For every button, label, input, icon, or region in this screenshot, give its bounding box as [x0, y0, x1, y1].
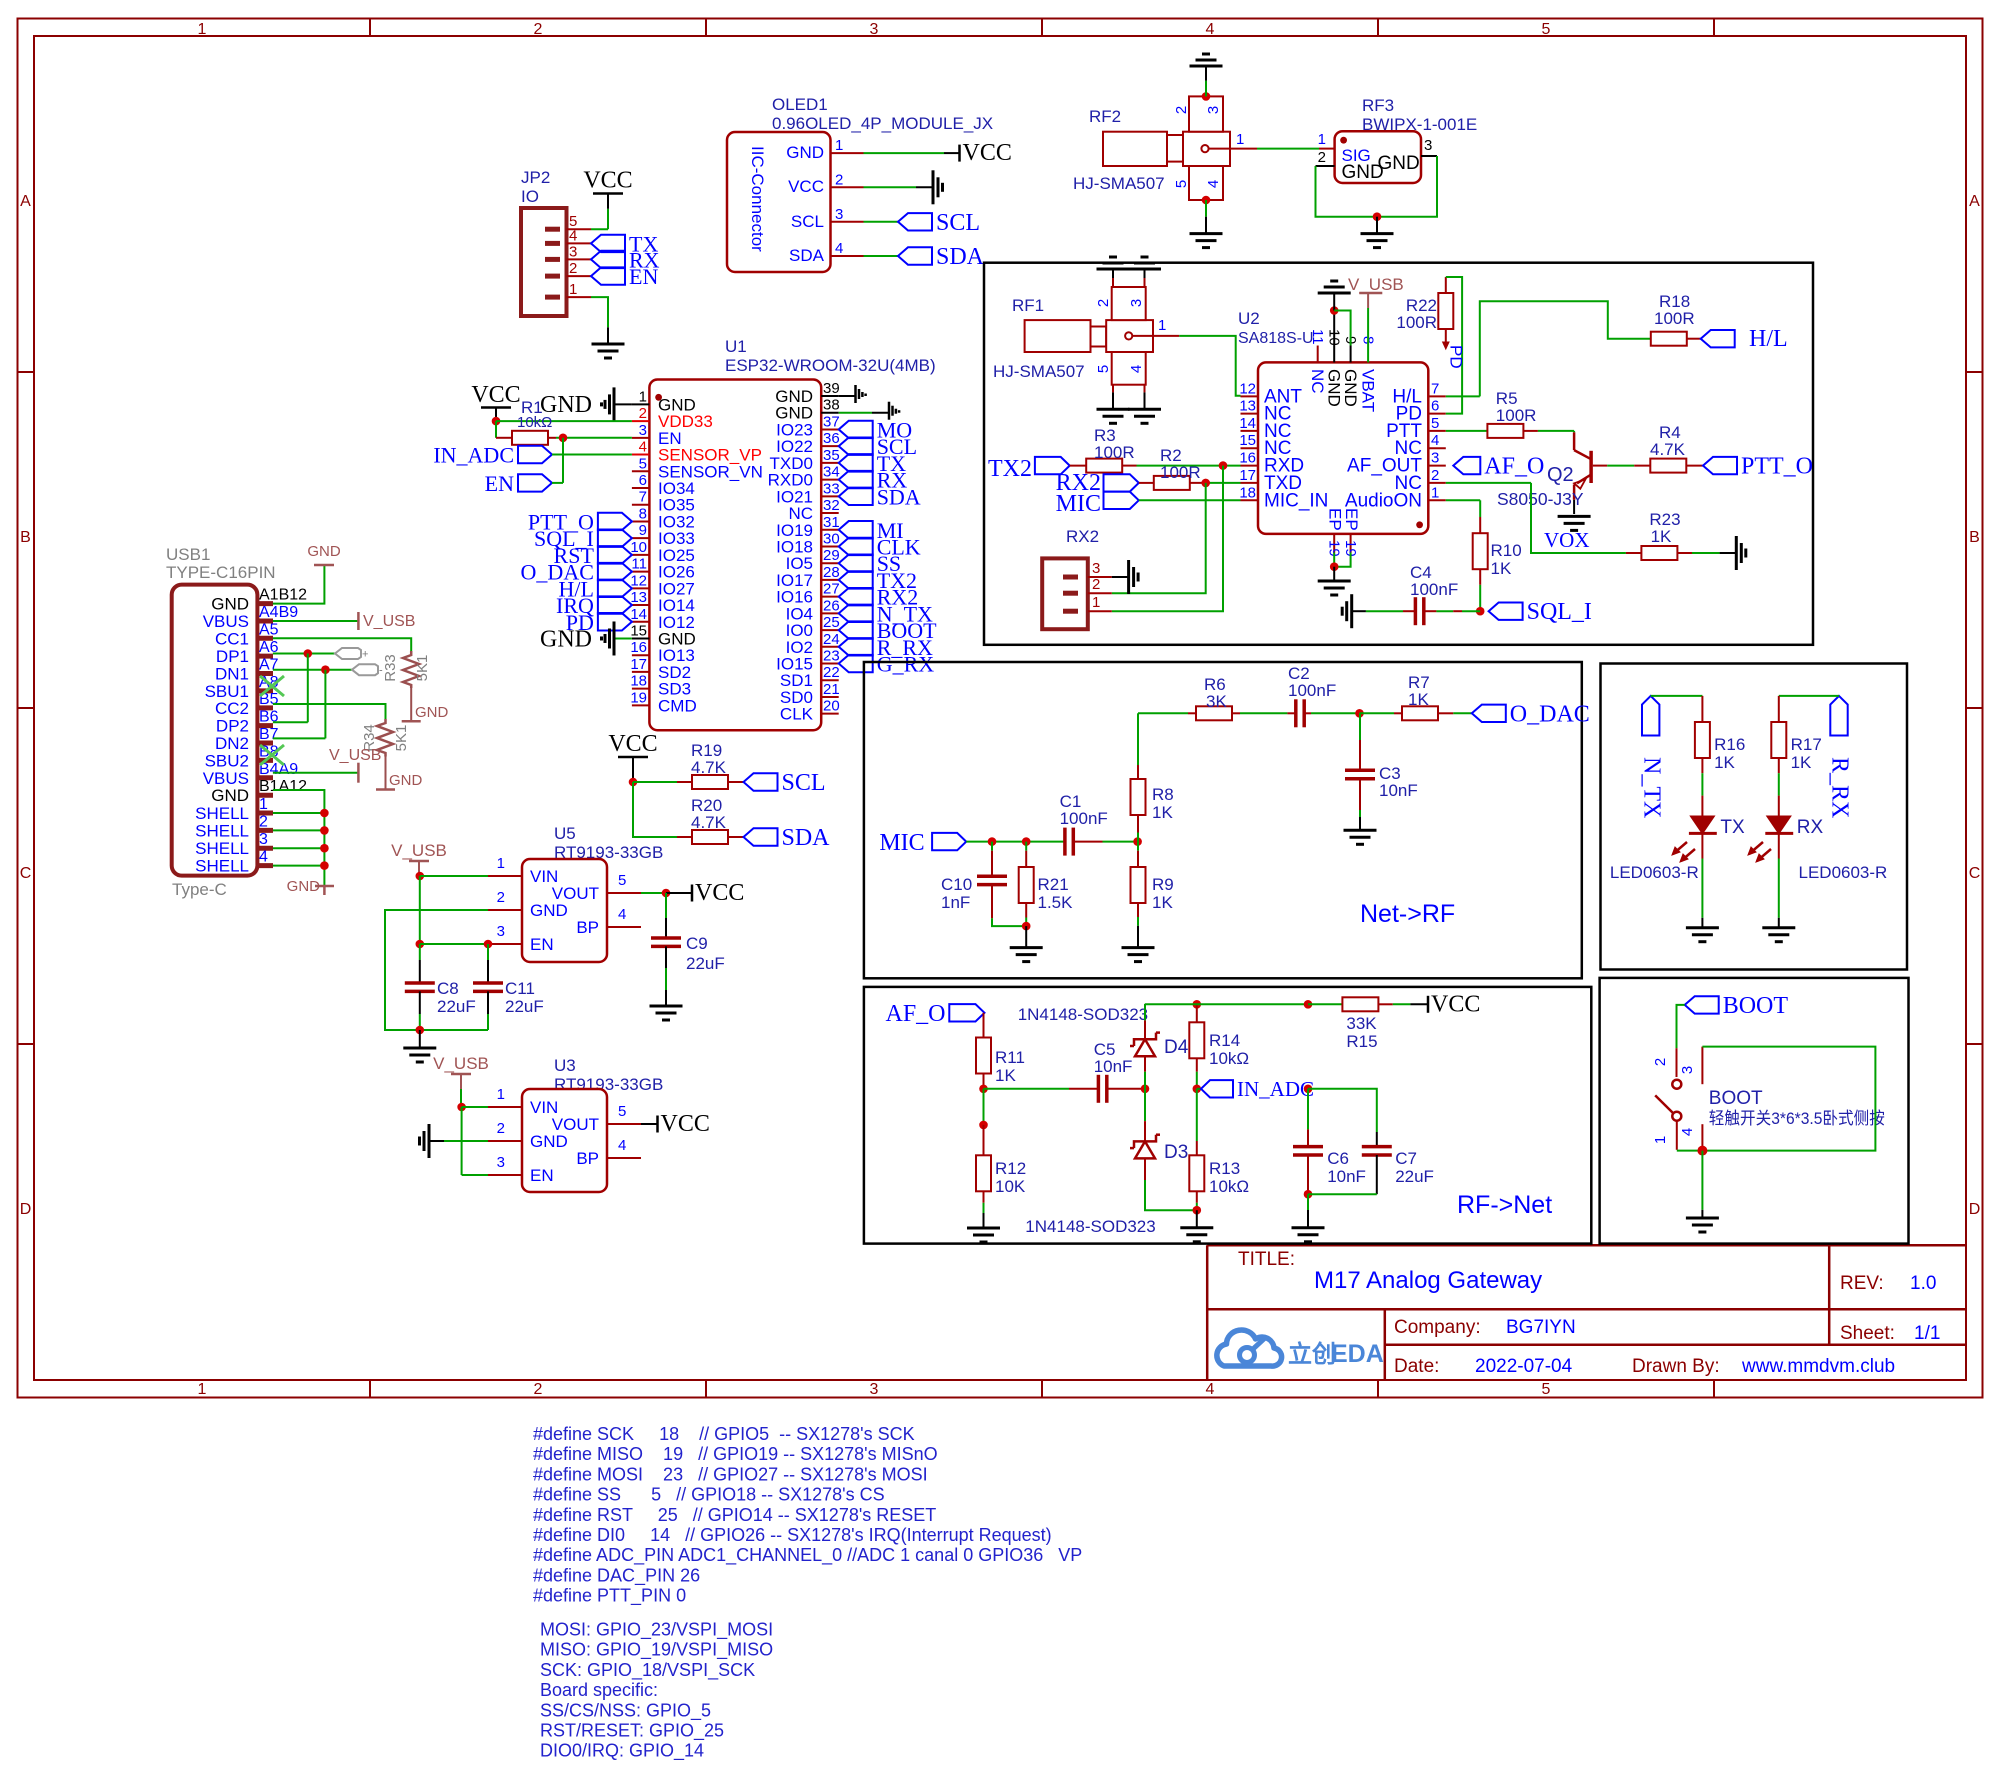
wire RF2-RF3 — [1230, 148, 1257, 150]
JP2 pin numbers — [569, 213, 577, 298]
net flag R_RX (box L) — [1830, 696, 1847, 736]
svg-text:1: 1 — [198, 21, 207, 38]
probe D+ — [335, 648, 361, 659]
net flag O_DAC (R7) — [1472, 705, 1506, 722]
svg-text:1: 1 — [1158, 317, 1166, 334]
svg-text:OLED1: OLED1 — [772, 95, 828, 114]
svg-text:3: 3 — [497, 923, 505, 940]
OLED1 pin numbers — [835, 137, 843, 257]
wire LED RX gnd — [1778, 833, 1780, 858]
wire NC pin2 to R23 — [1446, 482, 1531, 484]
svg-text:SHELL: SHELL — [195, 839, 249, 858]
svg-text:H/L: H/L — [1749, 326, 1788, 352]
power flag VCC (U3) — [656, 1116, 659, 1133]
svg-text:BG7IYN: BG7IYN — [1506, 1317, 1576, 1338]
defines text block — [533, 1424, 1082, 1607]
JP2 pin 2 wire — [567, 275, 592, 277]
svg-text:4.7K: 4.7K — [691, 758, 727, 777]
ground (C6) — [1292, 1226, 1325, 1229]
wire IN_ADC row — [1197, 1088, 1201, 1090]
wire U3 EN — [461, 1107, 463, 1175]
svg-text:IN_ADC: IN_ADC — [433, 443, 514, 468]
power flag VCC (R15) — [1410, 1003, 1428, 1005]
svg-text:10kΩ: 10kΩ — [1209, 1049, 1249, 1068]
svg-text:2: 2 — [1092, 576, 1100, 593]
svg-text:RF2: RF2 — [1089, 107, 1121, 126]
svg-text:R8: R8 — [1152, 785, 1174, 804]
svg-text:C: C — [1969, 865, 1981, 882]
svg-text:33: 33 — [823, 480, 840, 497]
R33 gnd wire — [410, 688, 412, 721]
svg-text:5: 5 — [618, 872, 626, 889]
svg-text:3: 3 — [1205, 106, 1222, 114]
wire EN riser — [562, 438, 564, 483]
svg-text:R21: R21 — [1038, 875, 1069, 894]
ground (RF2 bottom) — [1190, 232, 1223, 235]
svg-text:#define RST 25 // GPIO14: #define RST 25 // GPIO14 -- SX1278's RES… — [533, 1505, 936, 1525]
svg-text:22uF: 22uF — [686, 954, 725, 973]
U1 pin39 wire — [839, 395, 856, 397]
svg-text:1/1: 1/1 — [1914, 1323, 1940, 1344]
wire V_USB down — [419, 876, 421, 944]
svg-text:9: 9 — [639, 522, 647, 539]
svg-text:#define MOSI 23 // GPIO27: #define MOSI 23 // GPIO27 -- SX1278's MO… — [533, 1464, 928, 1484]
svg-text:3K: 3K — [1206, 692, 1227, 711]
svg-text:26: 26 — [823, 597, 840, 614]
wire V_USB to VIN — [416, 872, 425, 881]
ground (RF1 top left) — [1097, 268, 1130, 271]
svg-text:CC1: CC1 — [215, 629, 249, 648]
resistor R7 — [1360, 712, 1395, 714]
svg-text:V_USB: V_USB — [391, 841, 447, 860]
resistor R6 — [1188, 712, 1196, 714]
USB1 VBUS A4B9 wire — [273, 620, 359, 622]
capacitor C9 — [665, 893, 667, 918]
svg-text:1: 1 — [569, 281, 577, 298]
svg-text:2: 2 — [1173, 106, 1190, 114]
net flag EN (JP2) — [591, 267, 625, 284]
svg-text:R_RX: R_RX — [1827, 757, 1853, 818]
svg-text:1: 1 — [1092, 594, 1100, 611]
svg-text:3: 3 — [1679, 1066, 1696, 1074]
svg-text:NC: NC — [1308, 369, 1327, 394]
svg-text:CC2: CC2 — [215, 699, 249, 718]
chip U3 body — [522, 1089, 607, 1192]
svg-text:R17: R17 — [1791, 735, 1822, 754]
svg-text:4: 4 — [639, 439, 647, 456]
svg-text:R13: R13 — [1209, 1159, 1240, 1178]
svg-text:CMD: CMD — [658, 696, 697, 715]
svg-text:VCC: VCC — [471, 382, 520, 408]
resistor R21 — [1025, 842, 1027, 851]
svg-text:MIC: MIC — [1056, 491, 1101, 517]
net flag SCL (OLED1) — [898, 213, 932, 230]
OLED1 pin 4 wire — [831, 255, 864, 257]
net flag SQL_I (U1 pin9) — [598, 529, 632, 546]
svg-text:C9: C9 — [686, 934, 708, 953]
ground (C9) — [650, 1005, 683, 1008]
svg-text:EP: EP — [1342, 508, 1361, 531]
net flag SDA (OLED1) — [898, 247, 932, 264]
svg-text:HJ-SMA507: HJ-SMA507 — [1073, 174, 1165, 193]
JP2 pin 1 wire — [567, 296, 592, 298]
svg-text:2: 2 — [1318, 149, 1326, 166]
RF1 top pins — [1112, 278, 1114, 287]
wire U3 VOUT — [641, 1123, 657, 1125]
resistor R5 — [1487, 424, 1523, 438]
wire IN_ADC to pin4 — [552, 454, 632, 456]
svg-text:34: 34 — [823, 464, 840, 481]
wire BOOT to switch — [1677, 1005, 1685, 1048]
resistor R1 — [496, 437, 512, 439]
ground (RX2 pin3) — [1127, 560, 1130, 594]
svg-text:22uF: 22uF — [437, 997, 476, 1016]
svg-text:RST/RESET: GPIO_25: RST/RESET: GPIO_25 — [540, 1721, 724, 1742]
net flag SS (U1 pin29) — [839, 555, 873, 572]
svg-text:1K: 1K — [1651, 527, 1672, 546]
capacitor C7 — [1308, 1089, 1377, 1132]
svg-text:R33: R33 — [382, 654, 399, 682]
power flag V_USB (A4B9) — [357, 612, 360, 630]
svg-text:SCL: SCL — [782, 770, 826, 796]
svg-text:Sheet:: Sheet: — [1840, 1323, 1895, 1344]
connector USB1 body — [172, 585, 258, 876]
net flag SCL (U1 pin36) — [839, 437, 873, 454]
Q2 emitter gnd wire — [1573, 500, 1575, 514]
svg-text:3: 3 — [835, 206, 843, 223]
svg-text:GND: GND — [389, 772, 423, 789]
svg-text:8: 8 — [639, 505, 647, 522]
svg-text:Date:: Date: — [1394, 1356, 1439, 1377]
R34 gnd wire — [385, 757, 387, 790]
svg-text:1: 1 — [259, 796, 268, 813]
svg-text:4.7K: 4.7K — [691, 813, 727, 832]
svg-text:39: 39 — [823, 380, 840, 397]
svg-text:SCL: SCL — [936, 210, 980, 236]
resistor R17 — [1778, 696, 1780, 722]
svg-text:35: 35 — [823, 447, 840, 464]
svg-text:10kΩ: 10kΩ — [517, 414, 552, 431]
svg-text:PTT_O: PTT_O — [1741, 454, 1813, 480]
JP2 pin 3 wire — [567, 258, 592, 260]
RF1 pin numbers — [1095, 299, 1166, 373]
svg-text:VBAT: VBAT — [1359, 369, 1378, 412]
svg-text:5: 5 — [618, 1103, 626, 1120]
wire H/L pin7 — [1446, 395, 1480, 397]
svg-text:4: 4 — [1205, 180, 1222, 188]
svg-text:ESP32-WROOM-32U(4MB): ESP32-WROOM-32U(4MB) — [725, 356, 936, 375]
ground (U2 EP) — [1318, 580, 1351, 583]
svg-text:EN: EN — [530, 935, 554, 954]
USB1 DP1 wire — [273, 653, 335, 655]
svg-text:1.5K: 1.5K — [1038, 893, 1074, 912]
svg-text:A1B12: A1B12 — [259, 587, 307, 604]
svg-text:TITLE:: TITLE: — [1238, 1249, 1295, 1270]
svg-text:B4A9: B4A9 — [259, 761, 298, 778]
svg-text:C11: C11 — [505, 979, 535, 998]
svg-text:100R: 100R — [1396, 313, 1437, 332]
LED TX — [1691, 816, 1714, 833]
svg-text:Net->RF: Net->RF — [1360, 900, 1455, 928]
RF3 pin 1 wire — [1319, 148, 1335, 150]
resistor R14 — [1193, 1000, 1202, 1009]
OLED1 pin 3 wire — [831, 221, 864, 223]
capacitor C11 — [487, 944, 489, 960]
svg-text:www.mmdvm.club: www.mmdvm.club — [1741, 1356, 1895, 1377]
svg-text:29: 29 — [823, 547, 840, 564]
net flag TX2 (U1 pin28) — [839, 571, 873, 588]
svg-text:2: 2 — [497, 1120, 505, 1137]
svg-text:19: 19 — [630, 689, 647, 706]
svg-text:A4B9: A4B9 — [259, 604, 298, 621]
svg-text:7: 7 — [639, 489, 647, 506]
svg-text:GND: GND — [211, 595, 249, 614]
svg-text:5K1: 5K1 — [393, 725, 410, 752]
svg-text:17: 17 — [1239, 467, 1256, 484]
ground (R23) — [1735, 536, 1738, 570]
net flag RX (U1 pin34) — [839, 471, 873, 488]
svg-text:VCC: VCC — [661, 1111, 710, 1137]
USB1 CC1 wire — [273, 638, 411, 651]
diode D4 — [1144, 1004, 1146, 1021]
connector RF1 — [1025, 320, 1091, 352]
ground (OLED1 pin2) — [916, 186, 933, 188]
svg-text:#define DI0 14 // GPIO26: #define DI0 14 // GPIO26 -- SX1278's IRQ… — [533, 1525, 1052, 1545]
svg-text:22uF: 22uF — [505, 997, 544, 1016]
net flag BOOT (U1 pin25) — [839, 621, 873, 638]
RX2 pin2 stub — [1088, 592, 1112, 594]
U1 pin38 wire — [839, 412, 872, 414]
U2 EP gnd wire — [1333, 553, 1335, 567]
svg-text:GND: GND — [1325, 369, 1344, 407]
svg-text:V_USB: V_USB — [433, 1054, 489, 1073]
svg-text:15: 15 — [1239, 432, 1256, 449]
net flag O_DAC (U1 pin11) — [598, 563, 632, 580]
svg-text:SS/CS/NSS: GPIO_5: SS/CS/NSS: GPIO_5 — [540, 1700, 711, 1721]
svg-text:A5: A5 — [259, 621, 279, 638]
svg-text:EP: EP — [1325, 508, 1344, 531]
svg-text:3: 3 — [870, 1381, 879, 1398]
wire VCC to pin2 — [492, 417, 501, 426]
svg-text:1: 1 — [1652, 1136, 1669, 1144]
svg-text:R11: R11 — [995, 1048, 1025, 1067]
svg-text:GND: GND — [1341, 369, 1360, 407]
USB1 GND B1A12 wire — [273, 790, 325, 886]
svg-text:R10: R10 — [1491, 541, 1522, 560]
svg-text:1K: 1K — [1714, 753, 1735, 772]
wire RF1 to U2 ANT — [1153, 335, 1179, 337]
net flag IRQ (U1 pin13) — [598, 596, 632, 613]
svg-text:3: 3 — [1128, 299, 1145, 307]
resistor R16 — [1701, 696, 1703, 722]
svg-text:GND: GND — [530, 901, 568, 920]
svg-text:5: 5 — [1542, 1381, 1551, 1398]
svg-text:1: 1 — [835, 137, 843, 154]
svg-text:A7: A7 — [259, 657, 279, 674]
net flag AF_O (U2) — [1453, 457, 1480, 474]
svg-text:SDA: SDA — [877, 484, 921, 509]
svg-text:S8050-J3Y: S8050-J3Y — [1497, 489, 1584, 509]
ground (C4) — [1352, 610, 1366, 612]
net flag N_TX (box L) — [1642, 696, 1659, 736]
resistor R13 — [1196, 1089, 1198, 1141]
svg-text:GND: GND — [211, 786, 249, 805]
JP2 pin 5 wire — [567, 228, 592, 230]
svg-text:RX: RX — [1797, 817, 1824, 838]
svg-text:AF_O: AF_O — [1484, 454, 1544, 480]
resistor R3 — [1070, 465, 1087, 467]
svg-text:C10: C10 — [941, 875, 972, 894]
svg-text:SCK: GPIO_18/VSPI_SCK: SCK: GPIO_18/VSPI_SCK — [540, 1660, 755, 1681]
svg-text:VOUT: VOUT — [552, 1115, 599, 1134]
svg-text:RF1: RF1 — [1012, 296, 1044, 315]
net flag H/L (U1 pin12) — [598, 580, 632, 597]
svg-text:Board specific:: Board specific: — [540, 1680, 658, 1700]
svg-text:5: 5 — [639, 455, 647, 472]
wire RXD to RX2 pin1 — [1112, 466, 1223, 612]
svg-text:17: 17 — [630, 656, 647, 673]
wire V_USB to U3 VIN — [460, 1089, 462, 1107]
U2 left pins — [1239, 380, 1328, 511]
RX2 pin1 stub — [1088, 610, 1112, 612]
ground (R12) — [967, 1227, 1000, 1230]
svg-text:1: 1 — [639, 388, 647, 405]
svg-text:BP: BP — [576, 918, 599, 937]
transistor Q2 — [1573, 432, 1576, 450]
ground (U3 GND) — [429, 1140, 444, 1142]
svg-text:2: 2 — [1431, 467, 1439, 484]
ground (C8/C11) — [403, 1047, 436, 1050]
svg-text:14: 14 — [1239, 415, 1256, 432]
svg-text:4.7K: 4.7K — [1650, 440, 1686, 459]
title block frame — [1206, 1245, 1209, 1380]
no-connect X (SBU2) — [260, 745, 284, 765]
svg-text:DP2: DP2 — [216, 717, 249, 736]
svg-text:AF_O: AF_O — [885, 1001, 945, 1027]
svg-text:G_RX: G_RX — [877, 652, 935, 677]
svg-text:RF3: RF3 — [1362, 96, 1394, 115]
svg-text:VBUS: VBUS — [203, 612, 249, 631]
svg-text:100R: 100R — [1496, 406, 1537, 425]
resistor R9 — [1137, 842, 1139, 851]
box RF-Net — [864, 987, 1591, 1244]
svg-text:3: 3 — [1431, 450, 1439, 467]
wire R22 to PD pin — [1446, 277, 1462, 414]
net flag IN_ADC (box K) — [1201, 1080, 1233, 1097]
svg-text:C7: C7 — [1395, 1149, 1417, 1168]
svg-text:B7: B7 — [259, 726, 279, 743]
net flag BOOT (box M) — [1685, 996, 1719, 1013]
svg-text:5K1: 5K1 — [414, 655, 431, 682]
net flag R_RX (U1 pin24) — [839, 638, 873, 655]
R23 gnd wire — [1677, 552, 1692, 554]
svg-text:-: - — [379, 665, 383, 677]
USB1 DN1 wire — [273, 669, 352, 671]
RF1 bottom pins — [1112, 385, 1114, 393]
net flag H/L (R18) — [1701, 330, 1735, 347]
wire EN junction — [420, 943, 488, 945]
svg-text:HJ-SMA507: HJ-SMA507 — [993, 362, 1085, 381]
svg-text:DN2: DN2 — [215, 734, 249, 753]
svg-text:2: 2 — [639, 405, 647, 422]
sheet border frame — [18, 19, 1983, 1398]
ground (RF3) — [1361, 232, 1394, 235]
svg-text:31: 31 — [823, 514, 840, 531]
svg-text:16: 16 — [630, 639, 647, 656]
svg-text:Company:: Company: — [1394, 1317, 1481, 1338]
net flag G_RX (U1 pin23) — [839, 655, 873, 672]
svg-text:#define PTT_PIN 0: #define PTT_PIN 0 — [533, 1586, 686, 1607]
svg-text:B: B — [20, 529, 31, 546]
capacitor C8 — [419, 944, 421, 960]
connector RF2 — [1103, 132, 1167, 166]
svg-text:6: 6 — [639, 472, 647, 489]
svg-text:SBU2: SBU2 — [205, 751, 249, 770]
svg-text:100nF: 100nF — [1288, 681, 1336, 700]
power flag VCC (OLED1) — [944, 152, 960, 154]
svg-text:5: 5 — [1542, 21, 1551, 38]
svg-text:0.96OLED_4P_MODULE_JX: 0.96OLED_4P_MODULE_JX — [772, 114, 993, 133]
net flag RX2 (U1 pin27) — [839, 588, 873, 605]
svg-text:GND: GND — [1378, 153, 1420, 174]
U2 top pins — [1308, 329, 1377, 412]
resistor R15 — [1342, 997, 1378, 1011]
net flag PD (U1 pin14) — [598, 613, 632, 630]
power flag VCC (U5) — [666, 892, 692, 894]
svg-text:Drawn By:: Drawn By: — [1632, 1356, 1720, 1377]
ground (RF1 bottom right) — [1128, 408, 1161, 411]
svg-text:1K: 1K — [1152, 803, 1173, 822]
svg-text:1nF: 1nF — [941, 893, 970, 912]
svg-text:MOSI: GPIO_23/VSPI_MOSI: MOSI: GPIO_23/VSPI_MOSI — [540, 1620, 773, 1641]
svg-text:11: 11 — [1309, 329, 1326, 345]
wire R_RX to R17 — [1779, 695, 1839, 697]
svg-text:1N4148-SOD323: 1N4148-SOD323 — [1025, 1217, 1155, 1236]
wire TXD to RX2 pin2 — [1112, 483, 1206, 593]
JP2 pin 4 wire — [567, 242, 592, 244]
wire top rail — [1144, 1003, 1146, 1005]
U2 right pins — [1345, 380, 1446, 511]
svg-text:SDA: SDA — [789, 246, 825, 265]
svg-text:12: 12 — [1239, 380, 1256, 397]
svg-text:4: 4 — [1128, 365, 1145, 373]
box LEDs — [1601, 664, 1908, 970]
svg-text:3: 3 — [639, 422, 647, 439]
resistor R19 — [677, 781, 692, 783]
svg-text:1K: 1K — [1491, 559, 1512, 578]
svg-text:14: 14 — [630, 606, 647, 623]
svg-text:6: 6 — [1431, 398, 1439, 415]
svg-text:GND: GND — [530, 1132, 568, 1151]
svg-text:15: 15 — [630, 622, 647, 639]
svg-text:R16: R16 — [1714, 735, 1745, 754]
resistor R10 — [1473, 533, 1488, 569]
U5 pins — [488, 855, 641, 944]
ground (JP2 pin1) — [607, 327, 609, 344]
wire PTT to R5 — [1446, 430, 1488, 432]
diode D3 — [1144, 1089, 1146, 1121]
svg-text:U1: U1 — [725, 337, 747, 356]
svg-text:2: 2 — [835, 171, 843, 188]
ground (RF1 bottom left) — [1097, 408, 1130, 411]
OLED1 pin names — [786, 143, 824, 265]
chip U1 body — [649, 380, 821, 731]
RF2 pin numbers — [1173, 106, 1244, 188]
no-connect X (SBU1) — [260, 676, 284, 696]
resistor R8 — [1137, 833, 1139, 842]
svg-text:TX: TX — [1720, 817, 1745, 838]
wire N_TX to R16 — [1651, 695, 1703, 697]
